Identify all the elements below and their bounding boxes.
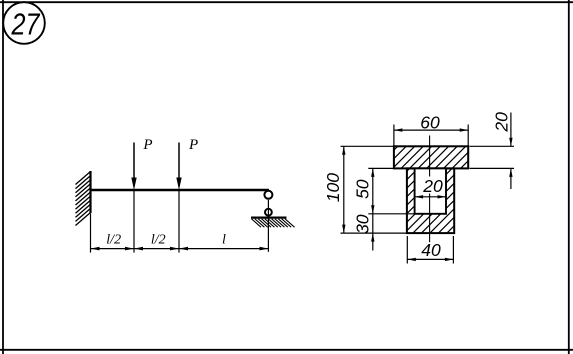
dim 50 extension lines — [368, 168, 414, 213]
dim 50 line and arrows — [371, 168, 374, 213]
dim 30 line and arrow — [371, 214, 374, 251]
roller support ground line — [251, 217, 287, 219]
roller support pin circle — [264, 191, 272, 199]
dim 60 extension lines — [394, 125, 468, 146]
force P1 arrow — [131, 143, 136, 191]
dim 40 line and arrows — [407, 258, 453, 261]
svg-text:50: 50 — [353, 179, 373, 199]
roller support vertical line — [267, 200, 269, 252]
roller support roller circle — [265, 209, 272, 216]
fixed support wall line — [89, 171, 91, 213]
dim 20 hole line and arrows — [415, 195, 446, 198]
svg-text:P: P — [142, 137, 152, 153]
cross-section flange outline — [394, 146, 468, 168]
cross-section stem outline — [407, 168, 454, 233]
beam dimension line — [91, 248, 269, 250]
dim 20 hole label background — [423, 177, 444, 194]
svg-text:100: 100 — [323, 173, 343, 202]
cross-section hole — [415, 168, 446, 213]
svg-text:27: 27 — [11, 7, 41, 42]
beam dimension arrows — [91, 247, 269, 251]
svg-text:l: l — [222, 232, 226, 247]
dim 100 line and arrows — [342, 146, 345, 233]
dim 60 line — [394, 129, 468, 131]
dim 100 extension lines — [341, 146, 407, 233]
svg-text:l/2: l/2 — [106, 233, 121, 248]
force P2 arrow — [176, 143, 181, 191]
dim 20 flange line and arrows — [509, 113, 512, 190]
dim 20 flange extension lines — [470, 146, 515, 168]
dim 40 extension lines — [407, 236, 453, 264]
beam — [91, 189, 270, 192]
dim 60 arrows — [394, 128, 468, 131]
svg-text:30: 30 — [353, 214, 373, 234]
svg-text:P: P — [188, 137, 198, 153]
roller support ground hatch — [252, 219, 295, 227]
cross-section flange hatched — [394, 146, 468, 168]
svg-text:40: 40 — [421, 240, 441, 260]
fixed support wall hatch — [76, 172, 91, 226]
problem number circle 27 — [3, 2, 45, 44]
svg-text:20: 20 — [492, 112, 512, 133]
cross-section stem hatched (minus hole) — [407, 168, 454, 233]
beam dimension extension lines — [91, 191, 180, 253]
svg-text:l/2: l/2 — [151, 233, 166, 248]
svg-text:20: 20 — [422, 176, 443, 196]
cross-section centerline — [429, 136, 431, 243]
svg-text:60: 60 — [420, 112, 440, 132]
